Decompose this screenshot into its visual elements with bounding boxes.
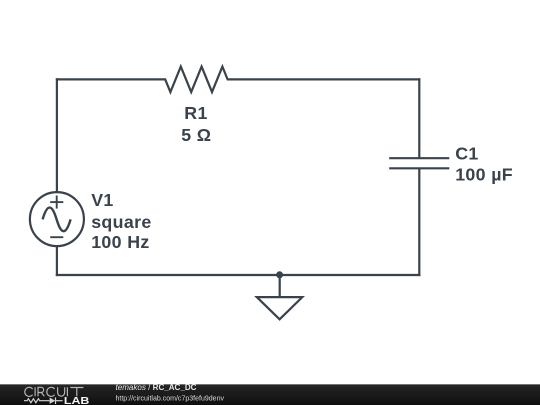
svg-text:temakos / RC_AC_DC: temakos / RC_AC_DC [116,383,197,392]
svg-text:LAB: LAB [64,396,90,405]
svg-text:square: square [91,212,151,232]
svg-text:C1: C1 [455,144,478,164]
svg-text:100 µF: 100 µF [455,164,513,184]
svg-text:100 Hz: 100 Hz [91,232,149,252]
svg-text:V1: V1 [91,190,113,210]
svg-text:http://circuitlab.com/c7p3fefu: http://circuitlab.com/c7p3fefu9denv [116,394,225,403]
svg-text:R1: R1 [184,103,207,123]
svg-text:5 Ω: 5 Ω [181,125,211,145]
